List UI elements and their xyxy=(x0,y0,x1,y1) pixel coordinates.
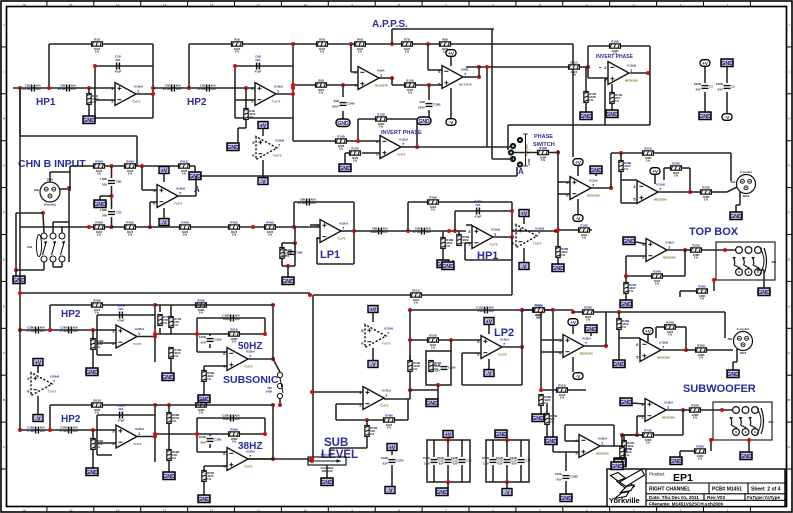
wire xyxy=(426,351,451,385)
svg-text:1%: 1% xyxy=(172,456,177,460)
svg-text:1%: 1% xyxy=(235,50,240,54)
svg-text:F-socket: F-socket xyxy=(737,327,749,331)
svg-text:R15B: R15B xyxy=(351,147,358,151)
junction xyxy=(520,345,524,349)
svg-text:C7B: C7B xyxy=(116,211,122,215)
svg-text:1%: 1% xyxy=(589,98,594,102)
resistor R48B xyxy=(441,238,454,249)
svg-text:R21B: R21B xyxy=(644,147,651,151)
svg-text:INVERT PHASE: INVERT PHASE xyxy=(381,130,422,136)
svg-text:1%: 1% xyxy=(624,167,629,171)
svg-text:63V: 63V xyxy=(498,462,503,466)
wire xyxy=(450,340,452,351)
svg-text:1%: 1% xyxy=(674,174,679,178)
wire xyxy=(294,201,354,203)
wire xyxy=(197,351,227,353)
junction xyxy=(271,457,275,461)
wire xyxy=(264,418,266,434)
wire xyxy=(463,76,479,78)
svg-text:1%: 1% xyxy=(462,241,467,245)
svg-text:U17bB: U17bB xyxy=(384,327,393,331)
resistor R36B xyxy=(690,404,701,420)
wire xyxy=(565,481,567,494)
wire xyxy=(686,349,695,351)
svg-text:U9bB: U9bB xyxy=(461,68,469,72)
resistor R33B xyxy=(617,319,630,330)
wire xyxy=(452,260,454,262)
svg-text:GND: GND xyxy=(606,112,618,118)
ground xyxy=(727,370,739,378)
junction xyxy=(263,432,267,436)
wire xyxy=(521,310,523,347)
wire xyxy=(521,347,523,385)
wire xyxy=(637,415,645,417)
wire xyxy=(565,424,614,426)
svg-text:1%: 1% xyxy=(183,233,188,237)
junction xyxy=(617,310,621,314)
svg-text:Date: Thu Dec 01, 2011: Date: Thu Dec 01, 2011 xyxy=(649,495,699,500)
resistor R30B xyxy=(583,306,594,322)
ground xyxy=(86,368,98,376)
svg-text:GND: GND xyxy=(585,327,597,333)
svg-text:NE5532N: NE5532N xyxy=(580,352,593,356)
wire xyxy=(523,248,525,262)
capacitor C38B xyxy=(418,100,441,110)
junction xyxy=(426,42,430,46)
svg-text:C30B: C30B xyxy=(570,475,577,479)
svg-text:63V: 63V xyxy=(453,462,458,466)
svg-text:1%: 1% xyxy=(319,91,324,95)
wire xyxy=(520,465,522,482)
power -V xyxy=(484,370,494,378)
wire xyxy=(565,440,579,442)
wire xyxy=(61,262,63,267)
wire xyxy=(163,208,165,218)
svg-text:33N: 33N xyxy=(333,99,338,103)
wire xyxy=(350,44,352,72)
svg-text:1%: 1% xyxy=(550,420,555,424)
svg-text:U12bB: U12bB xyxy=(627,64,636,68)
wire xyxy=(625,294,627,300)
wire xyxy=(407,202,409,231)
wire xyxy=(522,309,573,311)
resistor R41B xyxy=(179,160,190,176)
power +V xyxy=(387,444,397,452)
svg-text:MC33078: MC33078 xyxy=(375,84,388,88)
resistor R1B xyxy=(92,38,103,54)
wire xyxy=(689,168,691,192)
wire xyxy=(170,328,172,334)
svg-text:+V: +V xyxy=(448,51,455,57)
op-amp U20bB xyxy=(27,373,59,396)
junction xyxy=(18,428,22,432)
wire xyxy=(610,153,612,188)
wire xyxy=(13,87,115,89)
wire xyxy=(465,242,472,244)
svg-text:HP2: HP2 xyxy=(187,97,207,108)
svg-text:R46B: R46B xyxy=(266,221,273,225)
wire xyxy=(95,99,115,101)
junction xyxy=(167,403,171,407)
wire xyxy=(203,466,205,470)
svg-text:NE5532N: NE5532N xyxy=(657,356,670,360)
wire xyxy=(235,117,293,119)
ground xyxy=(611,462,623,470)
junction xyxy=(153,435,157,439)
svg-text:R44B: R44B xyxy=(181,221,188,225)
resistor R37B xyxy=(622,441,635,452)
svg-text:-V: -V xyxy=(725,115,731,121)
svg-text:47pF: 47pF xyxy=(118,419,125,423)
wire xyxy=(329,448,331,457)
junction xyxy=(684,348,688,352)
power -V xyxy=(159,219,169,227)
svg-text:TL072: TL072 xyxy=(133,442,142,446)
capacitor C36B xyxy=(199,435,222,445)
wire xyxy=(428,85,430,100)
resistor R39B xyxy=(94,160,105,176)
svg-text:TL072: TL072 xyxy=(498,353,507,357)
wire xyxy=(410,389,438,391)
wire xyxy=(136,136,138,166)
wire xyxy=(313,294,512,296)
wire xyxy=(96,315,98,330)
wire xyxy=(516,167,518,176)
junction xyxy=(709,438,713,442)
power -V xyxy=(446,119,456,127)
junction xyxy=(604,344,608,348)
junction xyxy=(251,225,255,229)
svg-text:U10bB: U10bB xyxy=(275,139,284,143)
potentiometer R40B xyxy=(308,453,346,474)
wire xyxy=(366,437,368,448)
wire xyxy=(506,437,508,440)
svg-text:100N: 100N xyxy=(199,435,206,439)
ground xyxy=(620,398,632,406)
svg-text:16: 16 xyxy=(22,3,26,7)
wire xyxy=(763,270,765,282)
capacitor C2B xyxy=(23,84,42,92)
junction xyxy=(747,438,751,442)
svg-text:1%: 1% xyxy=(199,411,204,415)
junction xyxy=(48,428,52,432)
resistor R12B xyxy=(584,92,597,103)
junction xyxy=(505,438,509,442)
svg-text:R63B: R63B xyxy=(93,399,100,403)
svg-text:GND: GND xyxy=(611,464,623,470)
svg-text:-V: -V xyxy=(370,362,376,368)
switch PHASE SWITCH J10B xyxy=(508,134,531,167)
capacitor C2 xyxy=(716,82,735,92)
wire xyxy=(492,440,494,457)
svg-text:R28B: R28B xyxy=(698,285,705,289)
wire xyxy=(621,435,623,446)
svg-text:TL072: TL072 xyxy=(174,202,183,206)
junction xyxy=(453,229,457,233)
svg-text:R1B: R1B xyxy=(94,38,100,42)
svg-text:R56B: R56B xyxy=(385,414,392,418)
capacitor C32B xyxy=(117,404,124,423)
wire xyxy=(272,305,274,359)
wire xyxy=(312,391,363,393)
svg-text:R53B: R53B xyxy=(429,334,436,338)
wire xyxy=(149,202,151,227)
svg-text:1%: 1% xyxy=(95,411,100,415)
svg-text:GND: GND xyxy=(339,166,351,172)
svg-text:1%: 1% xyxy=(387,426,392,430)
junction xyxy=(352,229,356,233)
svg-text:F: F xyxy=(3,211,5,215)
junction xyxy=(244,86,248,90)
power -V xyxy=(368,361,378,369)
svg-text:-V: -V xyxy=(449,120,455,126)
wire xyxy=(621,179,637,181)
wire xyxy=(43,213,44,233)
wire xyxy=(664,167,670,169)
svg-text:TL072: TL072 xyxy=(48,390,57,394)
svg-text:NE5532N: NE5532N xyxy=(663,256,676,260)
junction xyxy=(87,225,91,229)
junction xyxy=(477,65,481,69)
wire xyxy=(704,67,706,83)
wire xyxy=(608,311,725,313)
connector J5B xyxy=(727,327,752,355)
wire xyxy=(487,146,510,148)
op-amp U15bB xyxy=(468,226,500,249)
junction xyxy=(427,83,431,87)
ground xyxy=(620,300,632,308)
wire xyxy=(111,186,113,209)
resistor R38B xyxy=(695,445,706,461)
svg-text:100N: 100N xyxy=(423,456,430,460)
wire xyxy=(293,202,295,227)
svg-text:GND: GND xyxy=(620,400,632,406)
junction xyxy=(110,225,114,229)
svg-text:R23B: R23B xyxy=(672,162,679,166)
wire xyxy=(622,434,642,436)
svg-text:1%: 1% xyxy=(370,432,375,436)
svg-text:63V: 63V xyxy=(426,230,431,234)
wire xyxy=(293,140,380,142)
svg-text:C17: C17 xyxy=(525,459,531,463)
junction xyxy=(436,383,440,387)
wire xyxy=(661,349,686,351)
svg-text:R39B: R39B xyxy=(95,160,102,164)
junction xyxy=(390,42,394,46)
svg-text:R19B: R19B xyxy=(580,224,587,228)
svg-text:63V: 63V xyxy=(201,341,206,345)
wire xyxy=(595,173,597,176)
svg-text:1%: 1% xyxy=(320,50,325,54)
wire xyxy=(462,384,522,386)
resistor R45B xyxy=(229,221,240,237)
wire xyxy=(630,72,648,74)
svg-text:A: A xyxy=(194,185,200,194)
svg-text:100N: 100N xyxy=(451,456,458,460)
junction xyxy=(110,194,114,198)
svg-text:22 0N: 22 0N xyxy=(298,201,306,205)
svg-text:GND: GND xyxy=(86,370,98,376)
power +V xyxy=(443,431,453,439)
wire xyxy=(587,46,589,67)
junction xyxy=(683,248,687,252)
wire xyxy=(16,269,44,271)
wire xyxy=(88,105,90,116)
wire xyxy=(209,434,211,436)
junction xyxy=(291,86,295,90)
svg-text:1 N0F: 1 N0F xyxy=(99,177,107,181)
svg-text:63V: 63V xyxy=(71,87,76,91)
op-amp U10bB xyxy=(252,137,284,160)
ground xyxy=(606,110,618,118)
wire xyxy=(245,120,247,128)
wire xyxy=(248,458,273,460)
title block col line xyxy=(708,483,710,494)
svg-text:R25B: R25B xyxy=(692,244,699,248)
wire xyxy=(137,336,155,338)
wire xyxy=(649,73,651,125)
wire xyxy=(577,166,579,176)
svg-text:1%: 1% xyxy=(413,367,418,371)
junction xyxy=(586,65,590,69)
svg-text:63V: 63V xyxy=(696,88,701,92)
wire xyxy=(326,465,328,478)
svg-text:TL072: TL072 xyxy=(273,154,282,158)
junction xyxy=(140,164,144,168)
wire xyxy=(666,409,683,411)
svg-text:R14B: R14B xyxy=(337,135,344,139)
junction xyxy=(93,64,97,68)
junction xyxy=(310,457,314,461)
svg-text:TL072: TL072 xyxy=(380,404,389,408)
wire xyxy=(655,327,657,338)
junction xyxy=(310,459,314,463)
svg-text:NE5532N: NE5532N xyxy=(625,79,638,83)
wire xyxy=(238,127,246,129)
op-amp U24bA xyxy=(112,425,145,448)
wire xyxy=(262,129,264,136)
junction xyxy=(408,308,412,312)
wire xyxy=(618,330,620,338)
wire xyxy=(584,345,606,347)
wire xyxy=(317,237,320,239)
wire xyxy=(92,350,94,368)
wire xyxy=(20,226,320,228)
wire xyxy=(572,357,574,372)
power -V xyxy=(502,489,512,497)
wire xyxy=(461,440,463,457)
wire xyxy=(195,176,197,196)
svg-text:1%: 1% xyxy=(232,340,237,344)
svg-text:1%: 1% xyxy=(174,354,179,358)
ground xyxy=(670,457,682,465)
svg-text:1%: 1% xyxy=(446,244,451,248)
svg-text:100N: 100N xyxy=(694,82,701,86)
ground xyxy=(614,458,626,466)
junction xyxy=(292,225,296,229)
wire xyxy=(558,193,570,195)
capacitor C4B xyxy=(163,84,182,92)
wire xyxy=(351,71,358,73)
resistor R43B xyxy=(125,221,136,237)
svg-text:3823: 3823 xyxy=(740,351,747,355)
junction xyxy=(408,388,412,392)
svg-text:SUBWOOFER: SUBWOOFER xyxy=(683,383,756,395)
svg-text:U22bA: U22bA xyxy=(135,327,145,331)
svg-text:GND: GND xyxy=(740,454,752,460)
wire xyxy=(599,67,601,68)
wire xyxy=(111,217,113,227)
svg-text:+V: +V xyxy=(652,169,659,175)
wire xyxy=(97,354,112,356)
wire xyxy=(357,119,359,141)
ground xyxy=(321,478,333,486)
wire xyxy=(732,362,734,370)
wire xyxy=(508,124,650,126)
wire xyxy=(656,326,664,328)
svg-text:J2B: J2B xyxy=(34,188,39,192)
svg-text:22 0N: 22 0N xyxy=(198,87,206,91)
wire xyxy=(197,417,265,419)
svg-text:CHN B INPUT: CHN B INPUT xyxy=(18,158,86,170)
wire xyxy=(170,359,172,373)
svg-text:R38B: R38B xyxy=(696,445,703,449)
resistor R25B xyxy=(691,244,702,260)
svg-text:HP2: HP2 xyxy=(61,309,81,320)
wire xyxy=(342,111,344,119)
capacitor C27B xyxy=(381,456,404,466)
svg-text:-V: -V xyxy=(576,216,582,222)
svg-text:47pF: 47pF xyxy=(475,215,482,219)
wire xyxy=(50,404,155,406)
svg-text:63V: 63V xyxy=(435,369,440,373)
power +V xyxy=(568,319,578,327)
op-amp U25bA xyxy=(223,448,256,471)
wire xyxy=(461,353,463,385)
capacitor C31B xyxy=(199,335,222,345)
svg-text:SUBSONIC: SUBSONIC xyxy=(223,374,279,386)
svg-text:1%: 1% xyxy=(339,147,344,151)
svg-text:GND: GND xyxy=(418,119,430,125)
svg-text:14: 14 xyxy=(116,3,120,7)
title block col line xyxy=(703,494,705,501)
svg-text:-V: -V xyxy=(260,179,266,185)
wire xyxy=(410,339,427,341)
wire xyxy=(391,451,393,455)
svg-text:47 0N: 47 0N xyxy=(413,230,421,234)
svg-text:1%: 1% xyxy=(560,396,565,400)
svg-text:TL072: TL072 xyxy=(244,365,253,369)
wire xyxy=(605,78,608,80)
capacitor C7B xyxy=(99,208,121,218)
wire xyxy=(48,44,50,88)
svg-text:F-socket: F-socket xyxy=(740,170,752,174)
svg-text:C36B: C36B xyxy=(214,438,221,442)
svg-text:U20bB: U20bB xyxy=(50,375,59,379)
wire xyxy=(540,312,542,390)
title block row line xyxy=(646,499,785,501)
wire xyxy=(248,458,312,460)
wire xyxy=(757,269,764,271)
wire xyxy=(20,429,116,431)
wire xyxy=(341,230,354,232)
svg-text:C2: C2 xyxy=(731,85,735,89)
wire xyxy=(353,202,355,264)
svg-text:C31B: C31B xyxy=(214,338,221,342)
svg-text:RIGHT CHANNEL: RIGHT CHANNEL xyxy=(649,487,690,493)
wire xyxy=(19,88,21,227)
junction xyxy=(554,229,558,233)
